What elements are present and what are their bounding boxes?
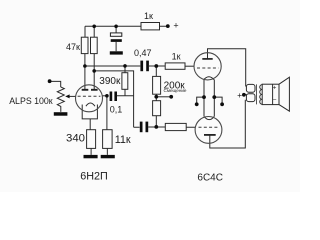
- svg-text:6С4С: 6С4С: [197, 172, 223, 183]
- svg-text:+: +: [173, 20, 178, 30]
- svg-text:0,47: 0,47: [134, 48, 152, 58]
- svg-text:340: 340: [66, 132, 85, 144]
- svg-text:6Н2П: 6Н2П: [80, 170, 108, 182]
- svg-text:ALPS 100к: ALPS 100к: [9, 96, 53, 106]
- svg-text:+: +: [237, 90, 242, 100]
- svg-text:0,1: 0,1: [110, 105, 123, 115]
- svg-text:−: −: [273, 97, 277, 104]
- svg-text:+: +: [273, 84, 277, 91]
- svg-text:390к: 390к: [99, 76, 121, 87]
- svg-text:1к: 1к: [172, 51, 181, 61]
- svg-text:11к: 11к: [115, 134, 131, 146]
- svg-text:1к: 1к: [144, 11, 153, 21]
- svg-text:Смещение: Смещение: [164, 88, 187, 93]
- svg-text:47к: 47к: [66, 42, 80, 52]
